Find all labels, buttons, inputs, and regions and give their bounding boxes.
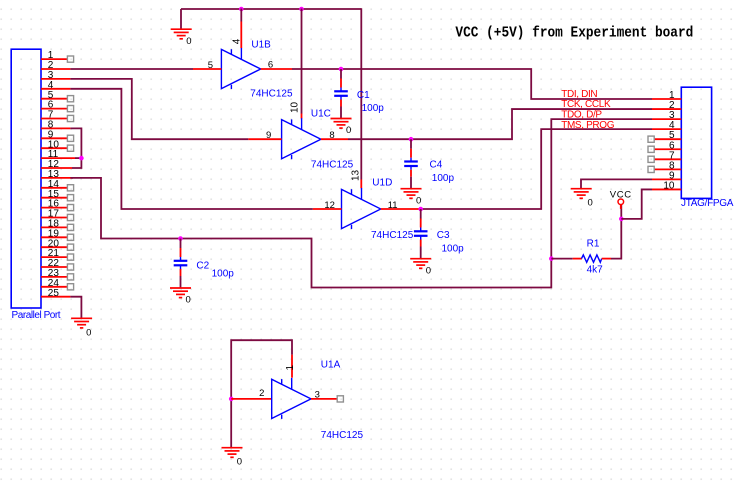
ground C4 — [401, 188, 422, 190]
J1 pin 10 stub — [41, 147, 67, 149]
J1 pin 1 stub — [41, 58, 67, 60]
connector JTAG/FPGA body — [681, 87, 711, 198]
J1 pin 2 stub — [41, 68, 70, 70]
wire net D1: J1.3 to U1C.9 — [70, 79, 248, 139]
J1 pin 17 stub — [41, 217, 67, 219]
node junction R1 left — [549, 256, 554, 261]
JTAG pin 7 stub — [654, 158, 681, 160]
buffer U1B 74HC125 — [221, 49, 260, 88]
J1 pin 16 stub — [41, 207, 67, 209]
resistor R1 body — [582, 255, 602, 262]
svg-text:74HC125: 74HC125 — [311, 160, 354, 171]
J1 pin 13 stub — [41, 177, 73, 179]
node junction C4 — [409, 137, 414, 142]
wire top ground rail — [181, 8, 361, 10]
wire R1 left — [551, 258, 572, 260]
svg-text:0: 0 — [237, 457, 242, 468]
J1 pin 14 stub — [41, 187, 67, 189]
JTAG pin 9 stub — [652, 178, 681, 180]
VCC circle stub — [620, 205, 622, 209]
svg-text:3: 3 — [315, 389, 320, 400]
buffer U1A 74HC125 — [272, 379, 311, 418]
capacitor C2 — [180, 239, 182, 249]
svg-text:0: 0 — [86, 328, 91, 339]
U1B pin6 stub — [261, 68, 292, 70]
ground U1A — [222, 447, 243, 449]
J1 pin 11 stub — [41, 157, 75, 159]
buffer U1D 74HC125 — [342, 189, 381, 228]
svg-text:1: 1 — [285, 365, 296, 371]
svg-text:JTAG/FPGA: JTAG/FPGA — [681, 198, 734, 209]
node junction U1B pin4 on rail — [239, 7, 244, 12]
svg-text:100p: 100p — [432, 173, 455, 184]
node junction U1A input — [229, 397, 234, 402]
JTAG pin 1 stub — [652, 98, 681, 100]
svg-text:C2: C2 — [196, 260, 209, 271]
wire net TCK: U1C.8 to JTAG.2 — [348, 109, 652, 139]
U1D pin12 stub — [313, 208, 342, 210]
JTAG pin 5 stub — [654, 138, 681, 140]
svg-text:Parallel Port: Parallel Port — [12, 310, 61, 321]
svg-text:4: 4 — [232, 38, 243, 44]
J1 pin 3 stub — [41, 78, 70, 80]
svg-text:10: 10 — [290, 101, 301, 113]
buffer U1C 74HC125 — [282, 120, 321, 159]
svg-text:74HC125: 74HC125 — [250, 89, 293, 100]
J1 pin 15 stub — [41, 197, 67, 199]
U1C pin9 stub — [248, 138, 281, 140]
JTAG pin 6 stub — [654, 148, 681, 150]
svg-text:C4: C4 — [430, 159, 443, 170]
ground C1 — [331, 118, 352, 120]
JTAG pin 2 stub — [652, 108, 681, 110]
U1B pin5 stub — [193, 68, 221, 70]
connector J1 Parallel Port body — [11, 49, 41, 308]
svg-text:13: 13 — [350, 169, 361, 181]
svg-text:0: 0 — [426, 265, 431, 276]
node junction C3 — [418, 207, 423, 212]
capacitor C1 — [340, 69, 342, 79]
J1 pin 12 stub — [41, 167, 72, 169]
svg-text:25: 25 — [48, 288, 60, 299]
svg-text:U1C: U1C — [311, 109, 331, 120]
svg-text:0: 0 — [186, 295, 191, 306]
J1 pin 8 stub — [41, 127, 70, 129]
wire R1 right up to VCC node — [611, 205, 621, 259]
JTAG pin 10 stub — [652, 188, 681, 190]
U1A pin2 stub — [231, 398, 272, 400]
wire net TDO: J1.13 to JTAG.3 — [70, 119, 652, 287]
capacitor C3 — [420, 209, 422, 219]
J1 pin 21 stub — [41, 256, 67, 258]
ground top-left — [171, 28, 192, 30]
wire U1A enable loop — [231, 340, 292, 399]
node junction U1C pin10 on rail — [299, 7, 304, 12]
J1 pin 25 stub — [41, 296, 70, 298]
wire JTAG.10 to VCC node — [621, 189, 652, 218]
capacitor C4 — [410, 139, 412, 149]
wire JTAG.9 to ground — [581, 179, 652, 188]
svg-text:0: 0 — [186, 36, 191, 47]
svg-text:100p: 100p — [362, 103, 385, 114]
power VCC circle — [618, 199, 624, 205]
wire J1.25 to ground — [70, 297, 81, 319]
ground C3 — [410, 258, 431, 260]
wire net D2: J1.4 to U1D.12 — [70, 89, 312, 209]
U1A pin1 stub — [291, 355, 293, 378]
U1A pin3 stub — [311, 398, 337, 400]
wire U1C pin10 drop — [301, 9, 303, 114]
R1 left stub — [573, 258, 582, 260]
svg-text:100p: 100p — [212, 269, 235, 280]
J1 pin 24 stub — [41, 286, 67, 288]
JTAG pin 3 stub — [652, 118, 681, 120]
J1 pin 7 stub — [41, 118, 67, 120]
J1 pin 22 stub — [41, 266, 67, 268]
wire net D0: J1.2 to U1B.5 — [70, 68, 193, 70]
wire U1B pin4 drop — [240, 9, 242, 22]
J1 pin 4 stub — [41, 88, 70, 90]
svg-text:C3: C3 — [437, 230, 450, 241]
wire ground drop top-left — [180, 9, 182, 29]
svg-text:0: 0 — [416, 195, 421, 206]
svg-text:74HC125: 74HC125 — [371, 230, 414, 241]
R1 right stub — [602, 258, 611, 260]
wire net TMS: U1D.11 to JTAG.4 — [421, 129, 652, 209]
node junction J1 pin11 — [79, 156, 84, 161]
svg-text:U1B: U1B — [251, 40, 271, 51]
title text — [455, 26, 693, 42]
svg-text:TDO, D/P: TDO, D/P — [561, 110, 602, 121]
svg-text:U1D: U1D — [372, 178, 392, 189]
ground J1.25 — [71, 317, 92, 319]
wire net TDI: U1B.6 to JTAG.1 — [292, 69, 652, 99]
J1 pin 9 stub — [41, 137, 67, 139]
U1D pin11 stub — [381, 208, 421, 210]
node junction VCC — [619, 217, 624, 222]
JTAG pin 4 stub — [652, 128, 681, 130]
J1 pin 5 stub — [41, 98, 67, 100]
ground C2 — [170, 287, 191, 289]
J1 pin 18 stub — [41, 226, 67, 228]
svg-text:0: 0 — [588, 197, 593, 208]
wire U1D pin13 drop — [360, 8, 362, 179]
J1 pin 20 stub — [41, 246, 67, 248]
J1 pin 6 stub — [41, 108, 67, 110]
node junction C1 — [339, 67, 344, 72]
node junction C2 — [178, 236, 183, 241]
wire U1A ground drop — [230, 399, 232, 448]
J1 pin 23 stub — [41, 276, 67, 278]
svg-text:R1: R1 — [587, 238, 600, 249]
svg-text:100p: 100p — [442, 243, 465, 254]
ground JTAG.9 — [571, 188, 592, 190]
svg-text:U1A: U1A — [321, 360, 341, 371]
svg-text:0: 0 — [346, 125, 351, 136]
svg-text:2: 2 — [259, 388, 264, 399]
svg-text:10: 10 — [663, 180, 675, 191]
wire net J1.8-11-12 tie — [70, 128, 81, 168]
svg-text:VCC (+5V) from Experiment boar: VCC (+5V) from Experiment board — [455, 26, 693, 42]
U1C pin8 stub — [321, 138, 348, 140]
svg-text:TMS, PROG: TMS, PROG — [561, 120, 615, 131]
J1 pin 19 stub — [41, 236, 67, 238]
JTAG pin 8 stub — [654, 168, 681, 170]
svg-text:74HC125: 74HC125 — [321, 430, 364, 441]
svg-text:4k7: 4k7 — [587, 264, 604, 275]
svg-text:C1: C1 — [357, 90, 370, 101]
